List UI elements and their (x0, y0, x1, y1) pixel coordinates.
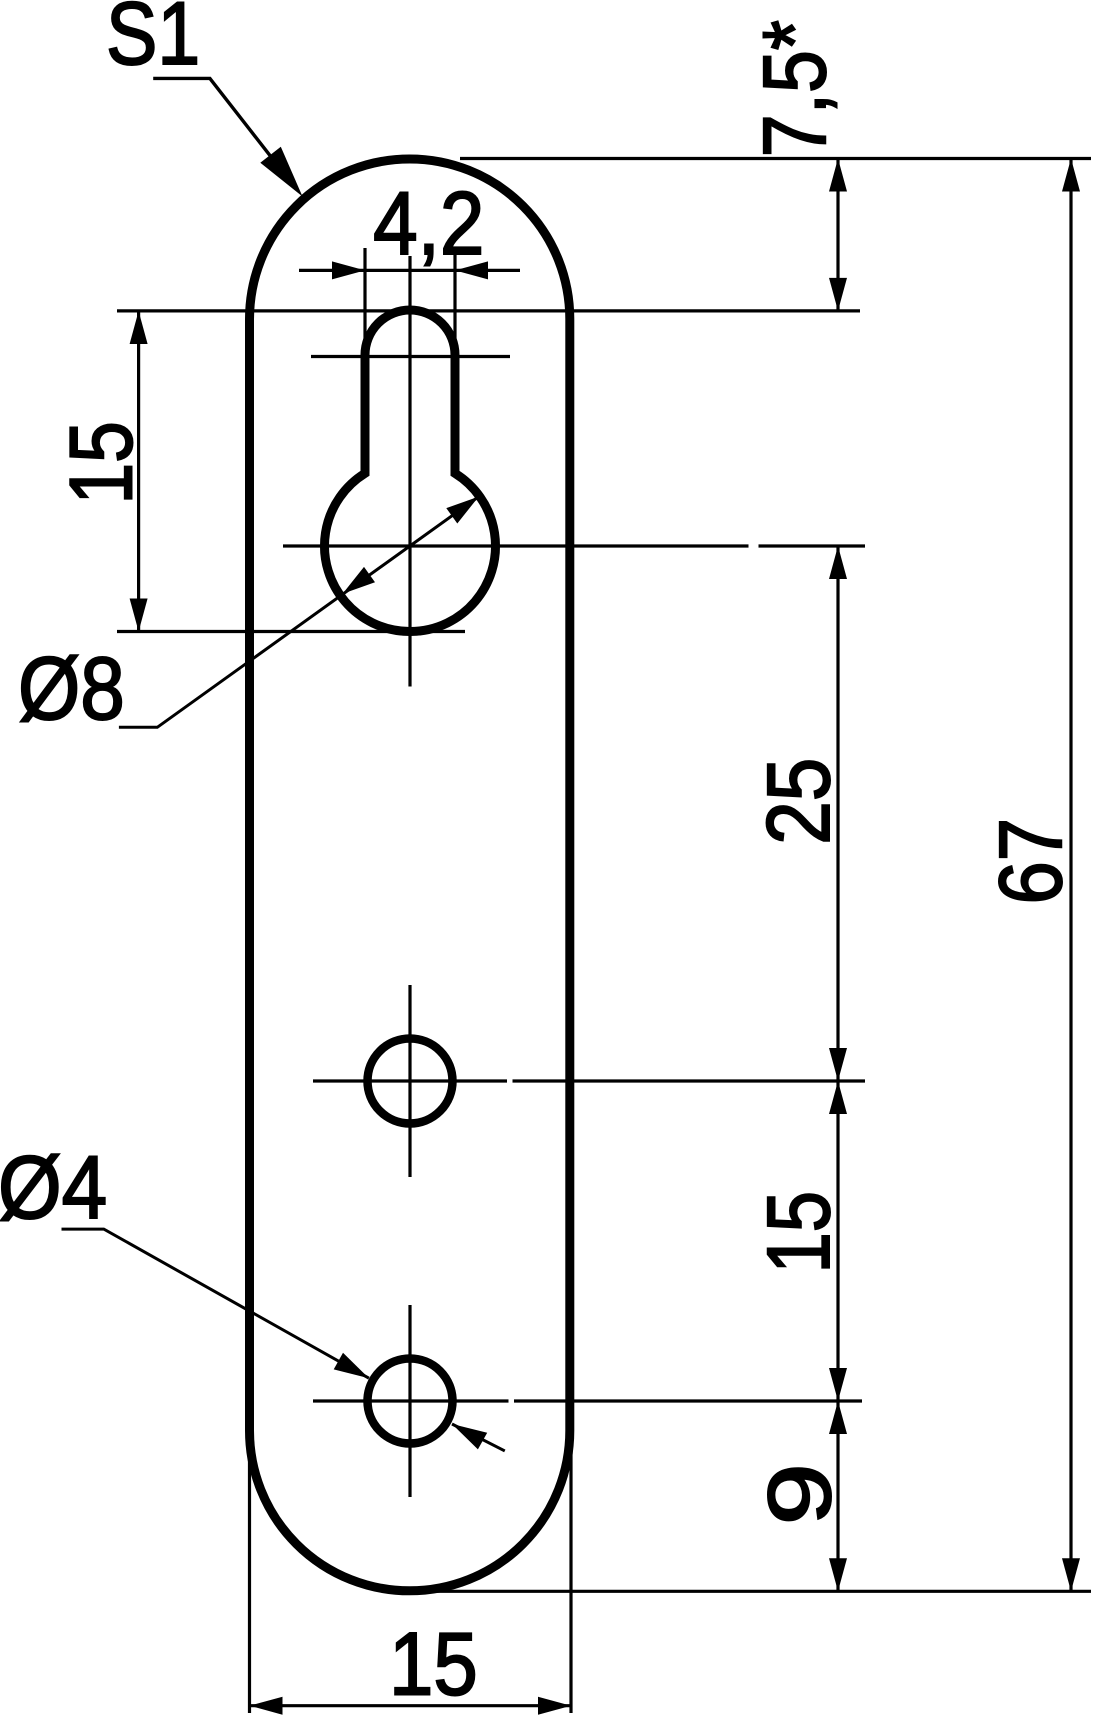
extension line slot top (y=310.9) (117, 309, 860, 312)
svg-text:15: 15 (52, 421, 150, 504)
arrowhead Ø8 upper (446, 497, 478, 524)
arrowhead 15 bottom left (250, 1697, 283, 1715)
arrowhead 9 bottom (829, 1558, 847, 1591)
dimension line chain 25/15/9 (836, 546, 839, 1591)
arrowhead 15 left top (130, 311, 148, 344)
centerline bottom hole horizontal (313, 1399, 509, 1402)
centerline bottom hole vertical (408, 1305, 411, 1497)
arrowhead 15 left bottom (130, 599, 148, 632)
extension line slot left (x=365) (363, 248, 366, 360)
hole Ø4 middle (368, 1039, 453, 1124)
svg-text:25: 25 (748, 758, 848, 845)
arrowhead S1 (260, 147, 302, 197)
arrowhead 25 bottom (829, 1048, 847, 1081)
arrowhead 25 top (829, 546, 847, 579)
extension line plate top (y=158.5) (460, 157, 1091, 160)
arrowhead 15 right bottom (829, 1368, 847, 1401)
svg-text:67: 67 (980, 818, 1080, 905)
svg-text:9: 9 (751, 1463, 850, 1525)
centerline keyhole vertical (408, 256, 411, 687)
dimension line 15 bottom (250, 1704, 572, 1707)
leader Ø4 tail (452, 1424, 505, 1451)
extension line bottom right (x=571) (569, 1430, 572, 1713)
arrowhead 15 right top (829, 1081, 847, 1114)
svg-text:4,2: 4,2 (373, 173, 484, 273)
arrowhead 7,5 top (829, 159, 847, 192)
extension line keyhole bottom (y=631.5) (117, 630, 465, 633)
centerline slot arc horizontal (y=356.5) (311, 355, 510, 358)
leader S1 (153, 78, 271, 157)
centerline middle hole horizontal (313, 1079, 507, 1082)
svg-text:7,5*: 7,5* (745, 20, 844, 157)
extension line bottom left (x=249.5) (248, 1430, 251, 1713)
keyhole slot (4.2 slot + Ø8 circle) (324, 310, 495, 631)
svg-text:Ø4: Ø4 (0, 1139, 107, 1238)
svg-text:15: 15 (389, 1614, 478, 1714)
arrowhead 4,2 left (332, 261, 365, 279)
svg-text:15: 15 (750, 1191, 849, 1273)
dimension line 67 (1069, 159, 1072, 1592)
arrowhead 7,5 bottom (829, 278, 847, 311)
leader Ø4 (62, 1229, 369, 1378)
dimension line 4,2 (299, 269, 520, 272)
extension line slot right (x=455) (453, 253, 456, 364)
extension line plate bottom (y=1591.3) (420, 1590, 1091, 1593)
hole Ø4 bottom (368, 1359, 453, 1444)
arrowhead Ø8 lower (343, 567, 375, 594)
arrowhead 67 bottom (1062, 1558, 1080, 1591)
svg-text:S1: S1 (106, 0, 200, 83)
dimension line 15 left (137, 311, 140, 632)
arrowhead Ø4 lower (452, 1424, 487, 1449)
arrowhead 4,2 right (455, 261, 488, 279)
dimension line chain 7,5 (836, 159, 839, 311)
arrowhead 9 top (829, 1401, 847, 1434)
arrowhead 67 top (1062, 159, 1080, 192)
leader Ø8 (119, 497, 479, 728)
plate outline S1 (250, 159, 570, 1591)
svg-text:Ø8: Ø8 (18, 638, 125, 738)
centerline keyhole horizontal (283, 544, 749, 547)
arrowhead 15 bottom right (538, 1697, 571, 1715)
arrowhead Ø4 upper (334, 1353, 369, 1378)
centerline middle hole vertical (408, 985, 411, 1177)
